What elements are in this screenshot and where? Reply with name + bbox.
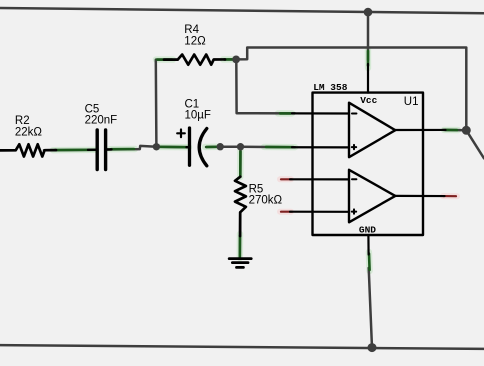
wire: green net C1 right	[207, 146, 218, 149]
wire: R5 top lead from node C	[239, 147, 242, 177]
red unconnected wire stubs	[281, 179, 456, 211]
svg-text:12Ω: 12Ω	[184, 36, 206, 48]
red pin-end halos	[280, 179, 457, 211]
pin: op-amp 2 non-inverting input	[290, 211, 349, 213]
wire: green net to op1 - input	[280, 112, 291, 115]
wire: red stub op-amp 2 non-inverting input	[281, 211, 292, 213]
wire: red stub op-amp 2 output	[443, 195, 456, 197]
node A: C5/R4 junction	[153, 143, 160, 150]
op-amp U1 B minus sign	[352, 178, 356, 180]
svg-text:Vcc: Vcc	[360, 95, 377, 106]
capacitor C1 plate left (straight, +)	[188, 128, 191, 165]
node B: C1 right junction	[217, 143, 224, 150]
node: op-amp output junction	[462, 126, 471, 135]
wire: R4 right lead to node	[224, 58, 236, 61]
wire: red stub op-amp 2 inverting input	[281, 178, 292, 180]
net halo highlights (light green glow)	[53, 49, 458, 271]
wire: diagonal from output node off canvas bottom-right	[466, 130, 484, 158]
wire: green net node A to C1	[158, 146, 188, 149]
capacitor C1 plate right (curved)	[199, 129, 207, 166]
wire: top power rail	[0, 8, 484, 13]
op-amp U1 package box	[313, 93, 424, 235]
ground symbol bar 3	[237, 266, 244, 269]
capacitor C5 plate left	[95, 130, 98, 170]
wire: op-amp 1 output to output node	[443, 129, 466, 132]
svg-text:R2: R2	[15, 115, 30, 127]
wire: C1 to node B, node C, toward op-amp 1 non-inverting input	[206, 145, 295, 148]
svg-text:270kΩ: 270kΩ	[249, 194, 283, 206]
wire: Vcc drop from top rail to U1 Vcc pin	[367, 12, 370, 60]
svg-text:10µF: 10µF	[185, 109, 211, 121]
pin: Vcc	[367, 64, 369, 93]
wire: R5 bottom lead to ground	[239, 212, 242, 258]
pin: op-amp 1 output	[395, 129, 445, 131]
node: top rail junction	[364, 8, 373, 17]
pin: op-amp 1 non-inverting input	[292, 146, 349, 148]
svg-text:GND: GND	[359, 224, 376, 235]
ground symbol bar 1	[229, 257, 251, 260]
svg-text:220nF: 220nF	[85, 114, 118, 126]
wire: green net R2-C5	[55, 149, 95, 152]
node C: R5 junction	[237, 143, 244, 150]
ground symbol bar 2	[232, 261, 248, 264]
svg-text:U1: U1	[404, 96, 419, 108]
black component graphics	[0, 55, 446, 268]
capacitor C1 plus sign	[177, 130, 185, 138]
op-amp U1 B plus sign	[352, 209, 356, 213]
svg-text:22kΩ: 22kΩ	[15, 127, 43, 139]
wire: green net Vcc	[367, 51, 370, 66]
wire: green net C5 right	[111, 148, 134, 151]
op-amp U1 triangle B	[349, 170, 395, 223]
wire: green net to op1 + input	[266, 146, 294, 149]
wire: C5 to node A with jog	[106, 146, 157, 150]
node: bottom rail junction	[368, 343, 377, 352]
pin: C5 right lead	[106, 148, 112, 151]
wire: green net op1 output	[445, 129, 457, 132]
pin: op-amp 1 inverting input	[292, 112, 349, 114]
wire: green net R5 to ground	[239, 236, 242, 258]
svg-text:R4: R4	[184, 24, 199, 36]
node: R4 right junction	[232, 56, 240, 64]
green net wire cores	[55, 51, 457, 270]
svg-text:LM 358: LM 358	[313, 82, 348, 93]
wire: bottom ground rail	[0, 345, 484, 349]
pin: GND	[367, 235, 369, 255]
op-amp U1 A minus sign	[352, 112, 356, 114]
wire: GND riser from U1 GND pin to bottom rail	[369, 268, 372, 348]
wire: green net R5 top	[239, 152, 242, 177]
resistor R5	[235, 177, 246, 236]
pin: C5 left lead	[88, 148, 97, 151]
pin: op-amp 2 inverting input	[290, 178, 349, 180]
pin: C1 left lead	[187, 146, 190, 148]
capacitor C5 plate right	[104, 130, 107, 170]
wire: from R4 node down to op-amp 1 inverting input	[236, 59, 295, 113]
wire: node A to C1	[156, 146, 189, 149]
wire: node A up and across to R4 left	[156, 60, 178, 147]
wire: green net R4 left	[157, 58, 172, 61]
resistor R4	[164, 55, 225, 65]
wire: green net R4 right	[225, 58, 233, 61]
wire: R2 to C5	[44, 148, 97, 151]
op-amp U1 A plus sign	[352, 145, 356, 149]
pin: op-amp 2 output	[395, 195, 444, 197]
resistor R2	[0, 144, 56, 156]
wire: feedback loop from node at R4 right to op-amp output node	[236, 48, 466, 131]
op-amp U1 triangle A	[349, 103, 395, 158]
wire: green net GND	[368, 254, 371, 271]
